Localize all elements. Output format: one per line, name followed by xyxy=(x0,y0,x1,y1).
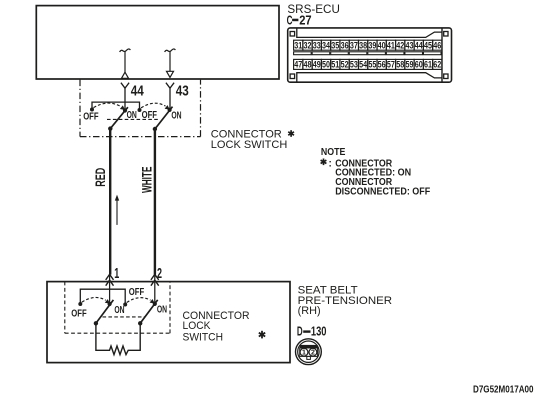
pin 43 branch inside ECU xyxy=(165,49,176,77)
svg-text:33: 33 xyxy=(313,41,321,51)
switch S4 lever (pin2) xyxy=(140,300,158,323)
svg-text:OFF: OFF xyxy=(83,112,98,123)
svg-text:1: 1 xyxy=(302,350,306,357)
svg-text:NOTE: NOTE xyxy=(321,147,346,158)
svg-text:SRS-ECU: SRS-ECU xyxy=(287,4,340,16)
label C-27 xyxy=(287,13,312,28)
svg-text:48: 48 xyxy=(304,60,312,70)
svg-text:34: 34 xyxy=(322,41,331,51)
svg-text:130: 130 xyxy=(311,325,327,339)
svg-text:56: 56 xyxy=(378,60,386,70)
dashed outline connector lock switch (bottom) xyxy=(65,282,170,334)
svg-text:47: 47 xyxy=(294,60,302,70)
svg-text:53: 53 xyxy=(350,60,358,70)
node S1 ON contact (pin 44) xyxy=(123,108,127,112)
pre-tensioner box xyxy=(47,282,290,363)
svg-text:OFF: OFF xyxy=(71,309,86,320)
svg-text:42: 42 xyxy=(396,41,404,51)
svg-text:43: 43 xyxy=(405,41,413,51)
svg-text:59: 59 xyxy=(405,60,413,70)
svg-text:52: 52 xyxy=(341,60,349,70)
label D-130 xyxy=(297,325,327,339)
svg-text:43: 43 xyxy=(176,83,189,100)
dashed travel arc S4 xyxy=(127,298,151,303)
svg-text:C: C xyxy=(287,13,293,28)
svg-text:61: 61 xyxy=(424,60,432,70)
switch S1 lever (pin44) xyxy=(110,107,128,128)
terminal chevrons pin 2 xyxy=(151,274,159,304)
node S3 pole junction xyxy=(94,321,98,325)
svg-text:OFF: OFF xyxy=(129,287,144,298)
shorting bar (top) xyxy=(92,102,140,110)
svg-text:2: 2 xyxy=(311,350,315,357)
svg-text:32: 32 xyxy=(304,41,312,51)
svg-text:27: 27 xyxy=(299,13,311,28)
asterisk note xyxy=(321,159,327,166)
svg-text:ON: ON xyxy=(171,110,181,121)
svg-text:51: 51 xyxy=(331,60,339,70)
svg-text:44: 44 xyxy=(415,41,424,51)
connector D-130 icon xyxy=(296,339,322,365)
svg-text:49: 49 xyxy=(313,60,321,70)
connector pin cells row 47-62 xyxy=(294,59,442,69)
dashed travel arc S1 xyxy=(94,103,121,108)
node S3 OFF contact xyxy=(78,302,82,306)
svg-text:36: 36 xyxy=(341,41,349,51)
node S4 pole junction xyxy=(138,321,142,325)
connector C-27 pinout drawing xyxy=(288,28,452,82)
svg-text:LOCK SWITCH: LOCK SWITCH xyxy=(211,139,287,151)
shorting bar (bottom) xyxy=(80,289,125,304)
svg-text:39: 39 xyxy=(368,41,376,51)
pin 44 branch inside ECU xyxy=(120,49,131,78)
svg-text:ON: ON xyxy=(157,305,167,316)
svg-text:31: 31 xyxy=(294,41,302,51)
switch S3 lever (pin1) xyxy=(96,300,114,323)
wire WHITE (pin43 to pin2) xyxy=(154,128,156,275)
svg-text:2: 2 xyxy=(157,265,162,282)
svg-text:35: 35 xyxy=(331,41,339,51)
svg-text:50: 50 xyxy=(322,60,330,70)
node S2 OFF contact xyxy=(138,108,142,112)
mechanical linkage (top) xyxy=(107,118,159,120)
terminal Y pin 43 xyxy=(166,83,174,110)
svg-text:41: 41 xyxy=(387,41,395,51)
node S4 ON contact (pin 2) xyxy=(153,302,157,306)
squib resistor xyxy=(96,325,140,355)
dashed travel arc S2 xyxy=(141,103,166,108)
NOTE block xyxy=(321,147,430,197)
svg-text:RED: RED xyxy=(92,168,108,187)
svg-text:58: 58 xyxy=(396,60,404,70)
svg-text:37: 37 xyxy=(350,41,358,51)
dash-dot outline connector lock switch (top) xyxy=(80,80,201,137)
terminal Y pin 44 xyxy=(121,83,129,111)
svg-text:54: 54 xyxy=(359,60,368,70)
wire RED (pin44 to pin1) xyxy=(109,128,111,275)
svg-text:55: 55 xyxy=(368,60,376,70)
connector mid lock bars xyxy=(294,52,441,55)
node S2 pole junction xyxy=(153,127,157,131)
svg-text:57: 57 xyxy=(387,60,395,70)
svg-text:ON: ON xyxy=(127,110,137,121)
svg-text:40: 40 xyxy=(378,41,386,51)
svg-text:44: 44 xyxy=(131,83,145,100)
svg-text:LOCK: LOCK xyxy=(183,320,211,332)
connector pin cells row 31-46 xyxy=(294,40,442,50)
svg-text:1: 1 xyxy=(114,265,119,282)
svg-text:ON: ON xyxy=(114,305,124,316)
svg-text:60: 60 xyxy=(415,60,423,70)
svg-text::: : xyxy=(329,158,332,169)
mechanical linkage (bottom) xyxy=(103,316,146,318)
svg-text:45: 45 xyxy=(424,41,432,51)
terminal chevrons pin 1 xyxy=(106,274,114,304)
svg-text:OFF: OFF xyxy=(142,110,157,121)
svg-text:WHITE: WHITE xyxy=(139,167,155,194)
dashed travel arc S3 xyxy=(82,297,106,302)
current direction arrow xyxy=(115,195,119,225)
svg-text:46: 46 xyxy=(433,41,441,51)
svg-text:DISCONNECTED: OFF: DISCONNECTED: OFF xyxy=(335,187,430,198)
asterisk top xyxy=(288,130,294,137)
node S2 ON contact (pin 43) xyxy=(168,108,172,112)
svg-text:D7G52M017A00: D7G52M017A00 xyxy=(473,385,534,396)
ECU box U1 SRS-ECU xyxy=(36,6,279,79)
asterisk bottom xyxy=(259,331,265,339)
switch S2 lever (pin43) xyxy=(155,107,173,129)
node S4 OFF contact xyxy=(123,303,127,307)
svg-text:62: 62 xyxy=(433,60,441,70)
node S1 pole junction xyxy=(108,126,112,130)
svg-text:D: D xyxy=(297,325,303,339)
node S1 OFF contact xyxy=(90,108,94,112)
svg-text:38: 38 xyxy=(359,41,367,51)
node S3 ON contact (pin 1) xyxy=(108,302,112,306)
connector clip squares xyxy=(290,32,448,79)
svg-text:(RH): (RH) xyxy=(298,305,321,317)
svg-text:SWITCH: SWITCH xyxy=(183,332,224,344)
